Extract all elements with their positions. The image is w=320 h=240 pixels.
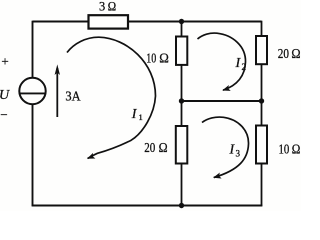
svg-text:Ω: Ω xyxy=(292,141,301,156)
resistor R 3ohm (box) xyxy=(89,15,129,28)
svg-text:Ω: Ω xyxy=(159,140,168,155)
svg-text:20: 20 xyxy=(278,46,289,61)
resistor 20ohm lower-left (box) xyxy=(176,126,188,164)
svg-text:10: 10 xyxy=(279,141,290,156)
node dot middle-left xyxy=(179,98,184,103)
wire branch A upper stub xyxy=(181,22,183,37)
wire top-left segment xyxy=(33,21,89,23)
svg-text:I: I xyxy=(131,107,138,122)
node dot top (junction at x=181.5,y=21.5) xyxy=(179,19,184,24)
wire middle rail xyxy=(182,100,262,102)
wire top-right segment xyxy=(128,21,262,23)
svg-text:1: 1 xyxy=(139,112,143,122)
svg-text:Ω: Ω xyxy=(291,46,300,61)
node dot bottom xyxy=(179,203,184,208)
current source U (circle with bar) xyxy=(19,78,45,104)
mesh arrow I1 xyxy=(67,37,156,158)
wire bottom segment xyxy=(32,205,263,207)
svg-text:3A: 3A xyxy=(65,88,80,103)
svg-text:10: 10 xyxy=(146,51,156,66)
svg-text:U: U xyxy=(0,88,10,103)
wire right bottom stub xyxy=(261,164,263,207)
wire branch A bottom stub xyxy=(181,164,183,206)
wire branch A lower stub xyxy=(181,101,183,126)
wire right lower stub xyxy=(261,101,263,126)
wire left lower segment xyxy=(32,104,34,206)
resistor 10ohm upper (box) xyxy=(176,37,187,65)
arrow 3A (current direction) xyxy=(56,68,58,117)
wire left upper segment xyxy=(32,21,34,78)
svg-text:2: 2 xyxy=(242,62,247,72)
svg-text:I: I xyxy=(235,56,242,71)
svg-text:−: − xyxy=(0,107,7,122)
wire branch A mid stub xyxy=(181,65,183,101)
svg-text:3: 3 xyxy=(99,0,105,14)
node dot middle-right xyxy=(259,98,264,103)
svg-text:+: + xyxy=(1,53,8,68)
mesh arrow I2 xyxy=(198,33,246,90)
wire right mid stub xyxy=(261,64,263,101)
mesh arrow I3 xyxy=(202,117,249,177)
svg-text:3: 3 xyxy=(236,149,241,159)
svg-text:20: 20 xyxy=(144,140,155,155)
svg-text:Ω: Ω xyxy=(108,0,116,14)
resistor 20ohm right (box) xyxy=(256,36,267,64)
svg-text:I: I xyxy=(229,143,236,158)
wire right upper stub xyxy=(261,21,263,36)
svg-text:Ω: Ω xyxy=(159,51,169,66)
resistor 10ohm right (box) xyxy=(256,126,267,164)
